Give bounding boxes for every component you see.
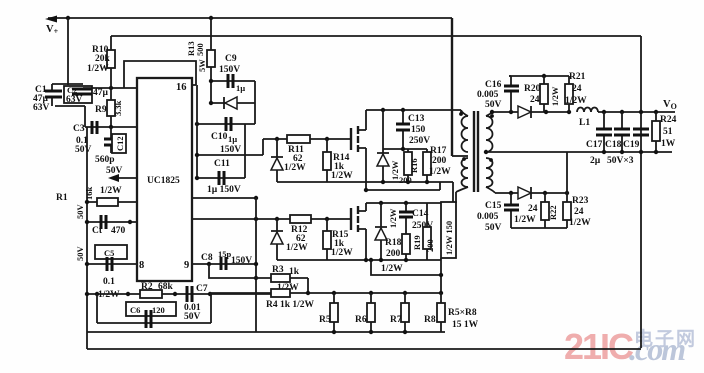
svg-text:50V: 50V [184,312,201,322]
node bank bottom junctions [332,330,336,334]
wire V+ drop to transformer primary [451,18,453,156]
svg-text:560p: 560p [95,155,115,165]
wire bottom cell row [511,227,567,229]
capacitor C5 boxed [95,245,127,259]
wire C1/C2 top loop [52,84,83,90]
svg-text:C16: C16 [485,80,502,90]
wire primary top lead [461,110,468,116]
svg-text:1k: 1k [289,267,300,277]
wire drain row B [366,202,441,204]
wire C3 row [85,126,137,128]
resistor R17 [426,149,428,182]
svg-text:15 1W: 15 1W [452,320,479,330]
diode D4 [530,187,532,199]
capacitor C10 [226,117,231,131]
svg-text:24: 24 [572,84,582,94]
op-amp U1 UC1825 body [137,78,192,281]
svg-text:1µ: 1µ [228,134,237,144]
transformer primary winding lower [462,158,469,187]
svg-text:3.3k: 3.3k [113,100,123,116]
wire C8 row pin9 [192,263,256,265]
svg-text:R18: R18 [385,238,402,248]
wire rail2 from R10 top to right [111,35,641,37]
svg-text:R5: R5 [319,315,331,325]
wire Ct row [87,221,137,223]
node junction R11 [275,137,279,141]
svg-text:63V: 63V [66,95,83,105]
capacitor C6 boxed [126,302,176,316]
svg-text:Ct: Ct [92,226,103,236]
wire drain row A [366,109,461,111]
capacitor C7 [187,286,192,302]
svg-text:24: 24 [530,95,540,105]
wire R1 row [87,201,137,203]
svg-text:1/2W: 1/2W [514,215,536,225]
svg-text:R3: R3 [272,265,284,275]
svg-text:50V: 50V [106,166,123,176]
resistor R19 [426,203,428,260]
svg-text:16: 16 [176,82,187,93]
pin arrow [118,177,137,179]
svg-text:R20: R20 [524,84,541,94]
svg-text:R23: R23 [572,196,589,206]
capacitor C14 [405,203,407,229]
wire R4 row [210,292,441,294]
svg-text:1/2W: 1/2W [388,208,398,228]
svg-text:1/2W: 1/2W [98,290,120,300]
svg-text:9: 9 [184,260,189,271]
wire left V+ drop [67,18,69,85]
capacitor C1 [45,91,62,97]
wire primary center tap [452,155,468,157]
capacitor Ct [101,215,106,229]
svg-text:UC1825: UC1825 [147,176,180,186]
inductor L1 [577,108,598,113]
node junction R15 top [325,217,329,221]
resistor R16 [407,149,409,182]
svg-text:68k: 68k [158,282,174,292]
svg-text:1/2W: 1/2W [100,186,122,196]
wire V+ top rail [48,17,452,19]
wire cell1 bottom rows [277,182,453,202]
resistor R23 [566,193,568,228]
svg-text:C6: C6 [130,305,140,315]
capacitor C2 boxed label [64,86,92,103]
svg-text:50V: 50V [75,145,92,155]
svg-text:C19: C19 [623,140,640,150]
wire diode row [211,102,255,104]
svg-text:1/2W: 1/2W [565,96,587,106]
resistor R9 [110,88,112,127]
svg-text:150V: 150V [231,256,252,266]
svg-text:50V: 50V [485,100,502,110]
resistor R8 [440,293,442,332]
svg-text:51: 51 [663,127,673,137]
svg-text:C10: C10 [211,132,228,142]
wire R3 row [209,264,308,293]
wire row y208 [192,197,256,199]
capacitor C15 [510,193,512,228]
svg-text:47µ: 47µ [93,88,109,98]
svg-text:R22: R22 [548,205,558,220]
svg-text:1/2W: 1/2W [331,248,353,258]
svg-text:24: 24 [528,204,538,214]
resistor R22 [544,193,546,228]
bottom rail B [87,348,641,350]
resistor R24 [655,112,657,152]
svg-text:20k: 20k [95,54,111,64]
bottom rail A [87,331,445,333]
svg-text:1W: 1W [661,139,676,149]
capacitor C12 [110,127,112,153]
wire vertical x256 [255,198,257,332]
node junction R14 top [325,137,329,141]
svg-text:C2: C2 [67,85,77,95]
svg-text:1/2W: 1/2W [569,218,591,228]
svg-text:C15: C15 [485,201,502,211]
terminal arrow V+ [45,16,57,23]
resistor R18 [405,229,407,260]
svg-text:R24: R24 [660,115,677,125]
svg-text:R7: R7 [390,315,402,325]
svg-text:63V: 63V [33,103,50,113]
resistor 150 boxed [441,202,456,258]
capacitor C17 [603,112,605,152]
svg-text:200: 200 [399,175,412,185]
wire right vertical rail down [640,36,642,348]
wire snubber top row [509,75,569,77]
svg-text:200: 200 [386,249,401,259]
svg-text:C7: C7 [196,284,208,294]
svg-text:C9: C9 [225,54,237,64]
svg-text:C18: C18 [605,140,622,150]
resistor R21 [568,76,570,112]
svg-text:50V: 50V [75,246,85,262]
svg-text:R1: R1 [56,193,68,203]
wire cell2 bottom row [277,259,441,261]
diode D3 [531,106,569,118]
resistor R14 [326,139,328,182]
capacitor C19 [633,129,649,135]
wire secondary top lead [486,112,518,116]
wire C1/C2 bottom loop [52,98,85,127]
svg-text:R19: R19 [412,235,422,250]
svg-text:50V: 50V [485,223,502,233]
resistor R7 [404,293,406,332]
wire primary bottom lead [456,187,468,203]
svg-text:250V: 250V [409,136,430,146]
diode D5 [223,97,225,109]
svg-text:R16: R16 [409,158,419,173]
svg-text:0.005: 0.005 [477,90,499,100]
wire return riser [566,152,568,193]
capacitor C13 [402,110,404,149]
resistor R2 [140,290,162,298]
svg-text:C13: C13 [408,114,425,124]
svg-text:1µ: 1µ [236,83,245,93]
svg-text:C3: C3 [73,124,85,134]
wire VC line to pin16 [124,61,196,88]
svg-text:0.005: 0.005 [477,212,499,222]
capacitor C8 [221,257,226,270]
transformer secondary winding lower [486,158,493,187]
resistor R6 [370,293,372,332]
wire C6 loop [97,294,211,323]
capacitor C3 [92,121,97,134]
svg-text:电子网: 电子网 [634,327,697,350]
wire C9 row [211,80,255,82]
capacitor C11 [219,171,224,185]
resistor R13 [210,18,212,103]
svg-text:1/2W: 1/2W [284,163,306,173]
svg-text:C5: C5 [104,248,114,258]
svg-text:470: 470 [111,226,126,236]
wire R2 row [87,293,271,295]
capacitor C9 [228,74,233,88]
svg-text:1/2W: 1/2W [550,86,560,106]
transformer primary winding upper [462,116,469,152]
resistor R10 [110,36,112,88]
svg-text:C8: C8 [201,253,213,263]
svg-text:R2: R2 [141,282,153,292]
svg-text:VO: VO [663,99,677,111]
svg-text:16k: 16k [84,187,94,201]
svg-text:200: 200 [432,156,447,166]
wire cell1 inner row [383,148,427,150]
diode D7 [375,203,387,260]
svg-text:L1: L1 [579,118,590,128]
transistor Q1 [350,128,352,150]
svg-text:V+: V+ [46,24,59,36]
diode D2 [271,219,283,260]
svg-text:R21: R21 [569,72,586,82]
svg-text:R8: R8 [424,315,436,325]
wire C10 row [197,123,255,125]
svg-text:C17: C17 [586,140,603,150]
svg-text:1/2W 150: 1/2W 150 [444,221,454,255]
transformer core [474,111,478,192]
wire secondary center tap to output return [486,151,567,153]
svg-text:R5×R8: R5×R8 [448,308,477,318]
diode D6 [377,110,389,182]
resistor R4 [271,289,290,297]
node junction 111,127 [109,125,113,129]
wire left vertical x197 [196,85,198,178]
wire node row y88 to IC [83,87,137,89]
svg-text:150V: 150V [220,145,241,155]
resistor R12 [290,215,311,223]
wire out-A row [197,139,351,155]
wire right side of loop [254,81,256,124]
capacitor C16 [509,76,511,112]
wire C11 row [197,177,245,179]
resistor R15 [326,219,328,260]
svg-text:1/2W: 1/2W [331,171,353,181]
node V+ drop junction [66,16,70,20]
svg-text:1µ 150V: 1µ 150V [207,185,241,195]
node junction at 111,88 [109,86,113,90]
transformer secondary winding upper [486,116,493,152]
svg-text:2µ: 2µ [590,156,601,166]
wire C5 row pin8 [87,263,137,265]
capacitor C18 [621,112,623,152]
svg-text:50V: 50V [75,204,85,220]
svg-text:21IC: 21IC [564,326,634,367]
wire jog to R4 row [371,258,441,293]
svg-text:R17: R17 [430,146,447,156]
svg-text:1/2W: 1/2W [429,167,451,177]
svg-text:5W: 5W [197,59,207,72]
svg-text:0.1: 0.1 [103,277,115,287]
svg-text:R4 1k 1/2W: R4 1k 1/2W [266,300,315,310]
svg-text:500: 500 [195,43,205,56]
node polarity dots [459,112,463,116]
svg-text:1/2W: 1/2W [381,264,403,274]
resistor R5 [333,293,335,332]
svg-text:24: 24 [574,207,584,217]
wire secondary bottom lead [486,187,518,193]
node R13 top junction [209,16,213,20]
svg-text:1/2W: 1/2W [286,243,308,253]
svg-text:R9: R9 [95,105,107,115]
svg-text:150V: 150V [219,65,240,75]
svg-text:150: 150 [411,125,426,135]
svg-text:200: 200 [425,239,435,252]
svg-text:C11: C11 [214,159,230,169]
transistor Q2 [350,208,352,230]
diode D1 [271,139,283,182]
svg-text:C12: C12 [115,136,125,151]
resistor R3 [271,274,290,282]
wire bottom diode row [531,192,567,194]
svg-text:15p: 15p [218,249,232,259]
svg-text:R6: R6 [355,315,367,325]
svg-text:120: 120 [152,305,165,315]
resistor R20 [543,76,545,112]
wire output bottom rail [567,151,672,153]
wire left ground rail [86,127,88,349]
svg-text:8: 8 [139,260,144,271]
svg-text:50V×3: 50V×3 [607,156,634,166]
resistor R1 [97,198,118,206]
wire out-B row [192,218,351,220]
wire output rail [598,111,675,113]
resistor R11 [287,135,310,143]
svg-text:1/2W: 1/2W [87,64,109,74]
wire vertical x245 [244,124,246,178]
